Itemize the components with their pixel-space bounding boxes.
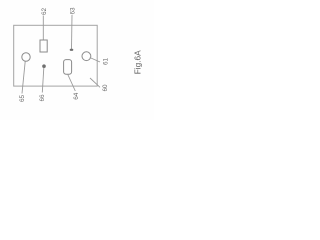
svg-text:62: 62	[41, 8, 48, 16]
svg-text:61: 61	[103, 58, 110, 66]
svg-text:66: 66	[39, 94, 46, 102]
connector rounded box	[64, 60, 72, 75]
wire leader from balloon circle to label 61	[90, 58, 100, 63]
svg-text:64: 64	[73, 92, 80, 100]
svg-text:Fig.6A: Fig.6A	[133, 50, 143, 74]
svg-text:65: 65	[19, 95, 26, 103]
wire leader from knob circle to label 65	[22, 61, 25, 93]
wire leader from indicator dot to label 66	[42, 68, 44, 93]
wire leader from label 62 to component box	[42, 16, 44, 41]
wire leader from connector to label 64	[68, 75, 76, 92]
wire leader from panel surface to label 60	[90, 78, 100, 87]
indicator dot	[42, 64, 46, 68]
svg-text:60: 60	[102, 84, 109, 92]
component box (small rectangle)	[40, 40, 47, 52]
knob circle	[22, 53, 30, 61]
svg-text:63: 63	[70, 7, 77, 15]
wire leader from label 63 to terminal dot	[71, 15, 74, 49]
balloon circle (feature hole)	[82, 52, 91, 61]
panel outline (main rectangle body)	[14, 25, 98, 86]
terminal dot (small filled dash)	[70, 49, 74, 51]
